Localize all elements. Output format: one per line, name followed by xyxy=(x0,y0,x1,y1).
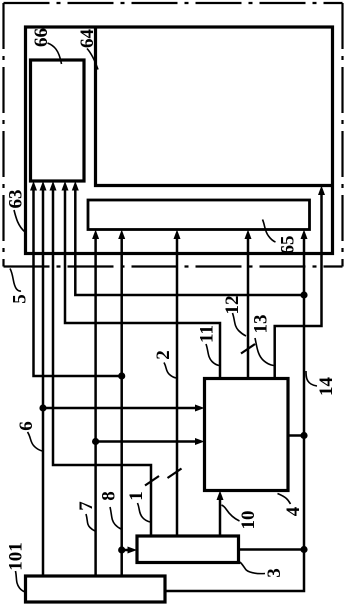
leader 3 xyxy=(240,562,265,574)
leader 64 xyxy=(87,49,98,70)
arrowhead into 66 (E) xyxy=(72,181,79,191)
arrowhead into 65 (G) xyxy=(118,230,125,240)
svg-text:4: 4 xyxy=(283,506,304,516)
wire A: arrow into 66, down, right to join G xyxy=(34,189,122,376)
box 3 xyxy=(137,536,239,563)
leader 66 xyxy=(48,43,62,64)
svg-text:14: 14 xyxy=(316,377,337,397)
svg-text:5: 5 xyxy=(10,294,31,304)
svg-text:3: 3 xyxy=(264,568,285,578)
dash-dot boundary 5 xyxy=(4,3,343,267)
leader 14 xyxy=(306,371,317,386)
junction dot on 14 at box 3 xyxy=(300,546,307,553)
leader 5 xyxy=(10,269,21,292)
arrowhead into 65 (wire 14) xyxy=(301,230,308,240)
leader 2 xyxy=(164,363,176,379)
wire 14: arrow into 65, down right side, left to 101 xyxy=(165,238,304,592)
arrowhead into 66 (A) xyxy=(30,181,37,191)
leader 101 xyxy=(16,571,27,593)
wire D / 11: arrow into 66, down, right, down to box 4 xyxy=(65,189,220,379)
leader 10 xyxy=(222,505,240,521)
wire B branch to box 4 left xyxy=(43,407,196,410)
wire F branch to box 4 left xyxy=(96,440,196,443)
arrowhead into box 4 bottom (wire 10) xyxy=(217,491,224,501)
junction dot on G at A xyxy=(118,372,125,379)
svg-text:12: 12 xyxy=(222,296,243,315)
leader 6 xyxy=(28,432,43,451)
leader 63 xyxy=(14,210,25,232)
svg-text:10: 10 xyxy=(238,511,259,530)
arrowhead into 65 (F) xyxy=(92,230,99,240)
svg-text:8: 8 xyxy=(99,491,120,501)
svg-text:11: 11 xyxy=(197,325,218,343)
leader 65 xyxy=(263,220,276,243)
arrowhead into 65 (wire 2) xyxy=(174,230,181,240)
box 101 xyxy=(26,576,166,602)
arrowhead into 66 (B) xyxy=(40,181,47,191)
leader 12 xyxy=(233,313,247,336)
svg-text:63: 63 xyxy=(6,190,27,209)
arrowhead into box 3 left (from G) xyxy=(128,547,138,554)
arrowhead into 64 (wire 13) xyxy=(318,186,325,196)
junction dot on G at box 3 xyxy=(118,546,125,553)
wire 12: arrow into 65, down to box 4 xyxy=(247,238,250,379)
leader 4 xyxy=(278,494,291,505)
svg-text:2: 2 xyxy=(153,350,174,360)
arrowhead into box 4 left (from F) xyxy=(195,438,205,445)
svg-text:66: 66 xyxy=(31,28,52,47)
arrowhead into box 4 left (from B) xyxy=(195,405,205,412)
svg-text:1: 1 xyxy=(126,491,147,501)
wire C / 1: arrow into 66, down, right, down to box 3 xyxy=(53,189,151,536)
wire 2: arrow into 65, down to box 3 xyxy=(176,238,179,537)
bus slash on wire 12 xyxy=(241,344,255,354)
leader 1 xyxy=(138,503,151,522)
bus slash on wire 1 xyxy=(145,476,159,486)
leader 8 xyxy=(110,507,121,529)
wire 14 branch from box 4 right xyxy=(288,434,304,437)
junction dot on B xyxy=(39,404,46,411)
box 65 xyxy=(88,200,310,230)
arrowhead into 65 (wire 12) xyxy=(245,230,252,240)
box 66 xyxy=(31,60,85,181)
arrowhead into 66 (C) xyxy=(50,181,57,191)
arrowhead into 66 (D) xyxy=(62,181,69,191)
svg-text:101: 101 xyxy=(6,542,27,571)
wire 7 / F: arrow into 65, down to 101 xyxy=(94,238,97,577)
wire B: arrow into 66, down to 101 xyxy=(42,189,45,576)
wire G branch arrow into box 3 left xyxy=(122,549,129,552)
bus slash on wire 2 xyxy=(168,469,182,479)
box 64 xyxy=(96,28,333,185)
wire 13: arrow into 64, down, left, down to box 4 xyxy=(275,194,322,379)
svg-text:7: 7 xyxy=(76,501,97,511)
wire E: arrow into 66, down, right to wire 14 xyxy=(75,189,304,295)
svg-text:65: 65 xyxy=(278,236,299,255)
leader 13 xyxy=(255,338,274,366)
svg-text:64: 64 xyxy=(77,29,98,49)
wire 14 branch from box 3 right xyxy=(239,548,305,551)
junction dot on 14 at E xyxy=(300,291,307,298)
junction dot on 14 at box 4 xyxy=(300,432,307,439)
junction dot on F xyxy=(92,438,99,445)
wire 8 / G: arrow into 65, down to 101 xyxy=(120,238,123,577)
box 63 xyxy=(26,27,333,254)
svg-text:6: 6 xyxy=(16,421,37,431)
box 4 xyxy=(205,379,289,491)
leader 7 xyxy=(86,514,95,531)
leader 11 xyxy=(206,344,219,366)
wire 10: from box 3 up arrow into box 4 xyxy=(219,499,222,536)
svg-text:13: 13 xyxy=(251,315,272,334)
